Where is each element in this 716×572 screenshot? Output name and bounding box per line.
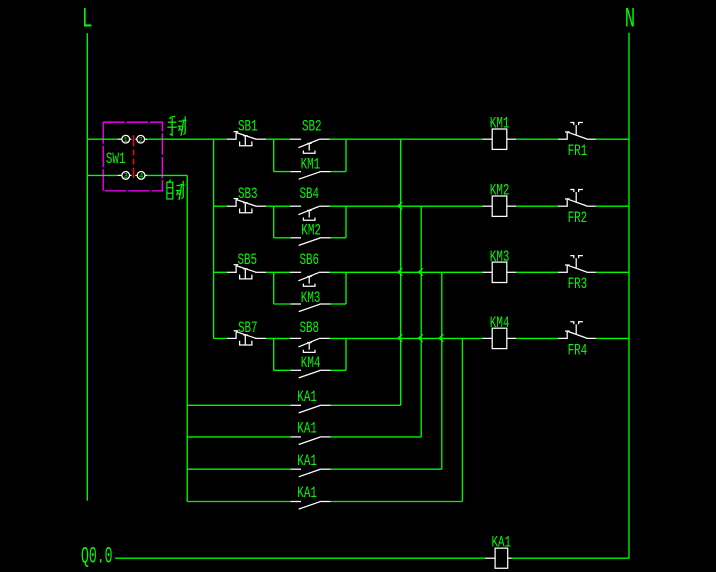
svg-text:L: L [82, 3, 92, 34]
wire branch lower rung2 left [274, 237, 291, 239]
coil KM2 label [490, 183, 510, 201]
svg-text:KA1: KA1 [297, 421, 317, 439]
svg-text:1: 1 [123, 137, 128, 145]
wire SB6 to branch right [330, 271, 347, 273]
pushbutton SB1 label [238, 119, 258, 137]
contact KA1 rung C label [297, 453, 317, 471]
wire branch left vertical rung1 [273, 139, 275, 171]
wire KM3 to FR3 [516, 271, 558, 273]
wire L rail [86, 33, 88, 500]
jog crossing V1 rung4 [398, 334, 402, 341]
coil KM4 label [490, 315, 510, 333]
switch SW1 bottom contact pin 3 [118, 172, 132, 181]
svg-text:FR1: FR1 [568, 143, 588, 161]
pushbutton SB2 (NO) [290, 139, 330, 153]
contact KM3 aux label [301, 290, 321, 308]
contact KM4 aux (NO) [291, 370, 331, 378]
wire branch right vertical rung3 [345, 272, 347, 304]
wire branch lower rung1 left [274, 171, 291, 173]
wire KA rung A left [187, 404, 290, 406]
wire FR4 to N [596, 337, 629, 339]
pushbutton SB7 (NC) [227, 331, 266, 345]
overload FR1 label [568, 143, 588, 161]
wire KA rung D right [331, 501, 463, 503]
svg-text:4: 4 [139, 173, 144, 181]
wire KA rung C left [187, 468, 290, 470]
wire KA rung B left [187, 436, 290, 438]
pushbutton SB8 label [300, 321, 320, 339]
contact KA1 rung B label [297, 421, 317, 439]
svg-text:FR3: FR3 [568, 277, 588, 295]
wire branch right vertical rung4 [345, 338, 347, 370]
wire branch right vertical rung1 [345, 139, 347, 171]
overload FR3 (NC) [558, 256, 596, 273]
wire L to SW1 bottom contact [87, 174, 117, 176]
wire FR3 to N [596, 271, 629, 273]
wire vertical rung1 to KA rung A [400, 139, 402, 405]
switch SW1 top contact pin 2 [135, 135, 147, 144]
wire KM2 to FR2 [516, 205, 558, 207]
node N label [625, 3, 635, 34]
jog crossing V2 rung3 [419, 268, 423, 275]
pushbutton SB3 label [238, 186, 258, 204]
wire SB8 to branch right [330, 337, 347, 339]
wire KA rung B right [331, 436, 421, 438]
switch SW1 top contact pin 1 [118, 135, 132, 144]
contact KM2 aux (NO) [291, 238, 331, 246]
wire L to SW1 top contact [87, 138, 117, 140]
svg-text:KM4: KM4 [301, 355, 321, 373]
wire branch lower rung3 left [274, 303, 291, 305]
contact KA1 rung D (NO) [291, 502, 331, 510]
wire rung1 to coil KM1 [346, 138, 482, 140]
overload FR1 (NC) [558, 123, 596, 140]
wire KA1 coil to N [512, 557, 630, 559]
contact KM1 aux (NO) [291, 172, 331, 180]
wire feeder to SB3 [214, 205, 227, 207]
wire SB1 to parallel branch [266, 138, 290, 140]
contact KM4 aux label [301, 355, 321, 373]
wire rung2 to coil KM2 [346, 205, 482, 207]
wire auto feeder vertical [186, 175, 188, 501]
coil KM2 [482, 196, 516, 216]
svg-text:SB8: SB8 [300, 321, 320, 339]
pushbutton SB6 label [300, 252, 320, 270]
wire vertical rung3 to KA rung C [441, 272, 443, 469]
wire branch lower rung4 left [274, 369, 291, 371]
pushbutton SB1 (NC) [227, 132, 266, 146]
wire branch left vertical rung3 [273, 272, 275, 304]
wire FR1 to N [596, 138, 629, 140]
wire KM1 to FR1 [516, 138, 558, 140]
svg-text:FR2: FR2 [568, 210, 588, 228]
overload FR2 (NC) [558, 190, 596, 207]
pushbutton SB2 label [302, 119, 322, 137]
switch SW1 gang link (red dashed) [133, 135, 135, 178]
wire branch right vertical rung2 [345, 206, 347, 238]
svg-text:SW1: SW1 [106, 151, 126, 169]
label zi-dong (automatic) [167, 180, 185, 201]
svg-text:3: 3 [123, 173, 128, 181]
jog crossing V2 rung4 [419, 334, 423, 341]
wire rung3 to coil KM3 [346, 271, 482, 273]
wire feeder to SB7 [214, 337, 227, 339]
wire branch lower rung3 right [331, 303, 346, 305]
coil KA1 label [492, 535, 512, 553]
wire SW1 pin4 to auto feeder [147, 174, 187, 176]
contact KM2 aux label [301, 223, 321, 241]
switch SW1 enclosure box [103, 122, 162, 191]
overload FR2 label [568, 210, 588, 228]
pushbutton SB4 (NO) [290, 206, 330, 220]
coil KM4 [482, 328, 516, 348]
wire KA rung C right [331, 468, 442, 470]
svg-text:FR4: FR4 [568, 343, 588, 361]
wire vertical rung4 to KA rung D [461, 338, 463, 501]
node Q0.0 label [81, 543, 113, 570]
coil KM3 [482, 262, 516, 282]
wire branch lower rung4 right [331, 369, 346, 371]
coil KM1 label [490, 116, 510, 134]
pushbutton SB5 (NC) [227, 265, 266, 279]
wire branch left vertical rung2 [273, 206, 275, 238]
wire SB4 to branch right [330, 205, 347, 207]
jog crossing V1 rung3 [398, 268, 402, 275]
pushbutton SB6 (NO) [290, 272, 330, 286]
label shou-dong (manual) [167, 116, 186, 136]
svg-text:Q0.0: Q0.0 [81, 543, 113, 570]
coil KA1 [485, 548, 511, 568]
svg-text:2: 2 [138, 137, 143, 145]
svg-text:N: N [625, 3, 635, 34]
switch SW1 bottom contact pin 4 [135, 172, 147, 181]
wire feeder to SB5 [214, 271, 227, 273]
wire branch lower rung1 right [331, 171, 346, 173]
wire SW1 pin2 to SB1 [147, 138, 227, 140]
svg-text:SB2: SB2 [302, 119, 322, 137]
contact KA1 rung C (NO) [291, 469, 331, 477]
svg-text:KA1: KA1 [297, 389, 317, 407]
contact KA1 rung A label [297, 389, 317, 407]
wire SB3 to parallel branch [266, 205, 290, 207]
coil KM1 [482, 129, 516, 149]
overload FR4 label [568, 343, 588, 361]
contact KA1 rung D label [297, 486, 317, 504]
svg-text:KM2: KM2 [301, 223, 321, 241]
wire vertical rung2 to KA rung B [420, 206, 422, 437]
svg-text:KA1: KA1 [297, 453, 317, 471]
contact KM3 aux (NO) [291, 304, 331, 312]
wire branch left vertical rung4 [273, 338, 275, 370]
wire SB7 to parallel branch [266, 337, 290, 339]
wire rung4 to coil KM4 [346, 337, 482, 339]
wire branch lower rung2 right [331, 237, 346, 239]
svg-text:KA1: KA1 [297, 486, 317, 504]
pushbutton SB3 (NC) [227, 199, 266, 213]
pushbutton SB5 label [238, 252, 258, 270]
overload FR3 label [568, 277, 588, 295]
jog crossing V1 rung2 [398, 202, 402, 209]
overload FR4 (NC) [558, 322, 596, 339]
pushbutton SB4 label [300, 186, 320, 204]
svg-text:KM1: KM1 [301, 157, 321, 175]
wire vertical feeder to rungs 2-4 [213, 139, 215, 338]
wire SB2 to branch right [330, 138, 347, 140]
jog crossing V3 rung4 [439, 334, 443, 341]
wire KM4 to FR4 [516, 337, 558, 339]
wire KA rung A right [331, 404, 401, 406]
wire SB5 to parallel branch [266, 271, 290, 273]
wire Q0.0 to coil KA1 [115, 557, 485, 559]
wire FR2 to N [596, 205, 629, 207]
wire N rail [628, 33, 630, 558]
contact KM1 aux label [301, 157, 321, 175]
contact KA1 rung A (NO) [291, 405, 331, 413]
switch SW1 label [106, 151, 126, 169]
svg-text:SB4: SB4 [300, 186, 320, 204]
pushbutton SB8 (NO) [290, 338, 330, 352]
wire KA rung D left [187, 501, 290, 503]
contact KA1 rung B (NO) [291, 437, 331, 445]
coil KM3 label [490, 249, 510, 267]
pushbutton SB7 label [238, 321, 258, 339]
svg-text:SB6: SB6 [300, 252, 320, 270]
node L label [82, 3, 92, 34]
